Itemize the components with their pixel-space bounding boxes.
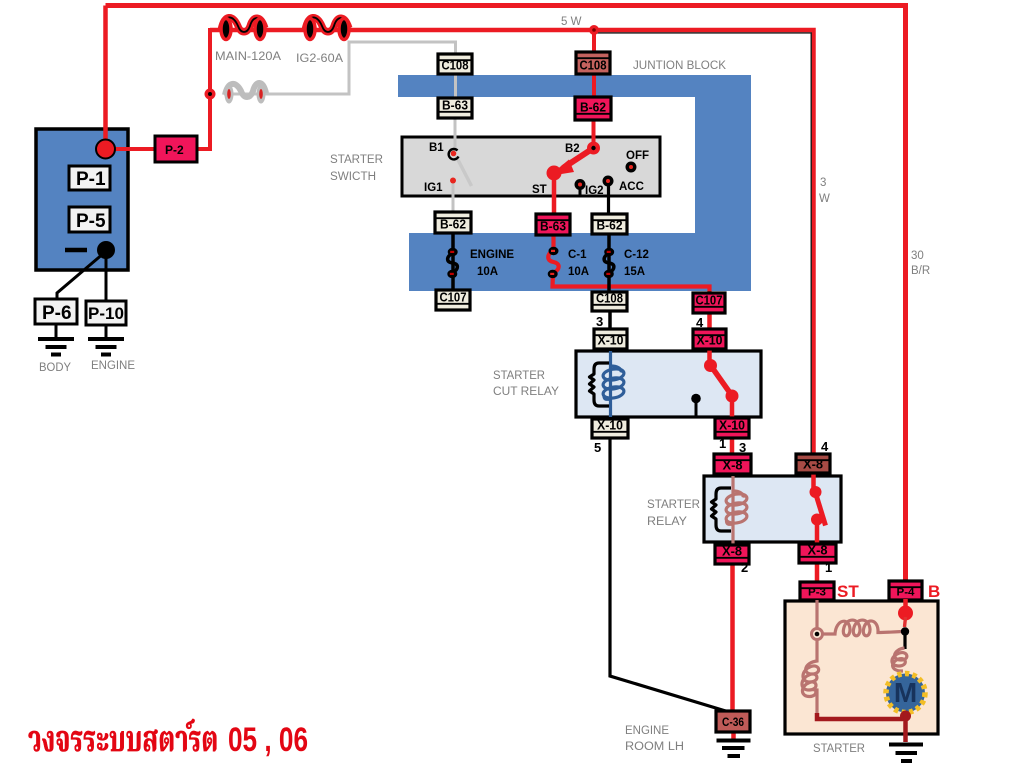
wire: battery positive riser x=105 <box>103 6 108 142</box>
svg-text:C108: C108 <box>596 292 623 306</box>
svg-text:ST: ST <box>532 184 547 196</box>
fuse C-1 end dots <box>549 247 559 255</box>
wire: red through C-36 to ground <box>731 730 736 741</box>
svg-text:IG1: IG1 <box>424 182 443 194</box>
svg-text:4: 4 <box>821 439 829 454</box>
connector P-6 <box>35 299 77 324</box>
wire: red P-4 into starter <box>903 599 908 612</box>
wire: gray IG1 down to B-62 <box>452 183 455 214</box>
svg-text:5 W: 5 W <box>561 16 582 28</box>
svg-text:X-10: X-10 <box>719 419 745 433</box>
terminal ST (big red dot) <box>547 166 562 181</box>
wire: red X-8 pin1 to P-3 <box>815 562 820 583</box>
svg-text:IG2: IG2 <box>585 185 604 197</box>
wire: black ACC down to B-62 <box>607 186 610 216</box>
wire: battery neg to P-10 <box>105 258 108 301</box>
wire: black X-10 pin5 down then diagonal to C-36 <box>610 437 729 712</box>
svg-text:X-8: X-8 <box>723 459 743 473</box>
svg-text:RELAY: RELAY <box>647 516 687 528</box>
svg-text:P-2: P-2 <box>165 143 184 157</box>
ground ENGINE ROOM LH (under C-36) <box>717 741 751 757</box>
svg-text:C-1: C-1 <box>568 249 587 261</box>
wire: red X-10 pin1 to X-8 pin3 <box>730 437 735 455</box>
svg-text:P-1: P-1 <box>76 169 106 190</box>
fusible link gray (to IG sub) <box>225 83 267 104</box>
fuse ENGINE 10A squiggle <box>448 253 458 273</box>
terminal B1 <box>449 149 459 159</box>
connector X-8 pin4 <box>796 454 830 473</box>
svg-text:P-4: P-4 <box>897 587 916 599</box>
connector B-63 mid <box>536 214 570 235</box>
svg-text:15A: 15A <box>624 266 645 278</box>
ground BODY <box>38 339 74 355</box>
wire: gray C108L to B-63 <box>454 73 457 100</box>
svg-text:CUT RELAY: CUT RELAY <box>493 386 559 398</box>
connector P-1 <box>69 166 110 190</box>
wire: drop x=210 from link line to P-2 level <box>208 28 212 149</box>
svg-text:05 , 06: 05 , 06 <box>228 721 308 759</box>
connector B-62 left <box>435 212 471 233</box>
svg-text:X-10: X-10 <box>597 419 623 433</box>
svg-text:C108: C108 <box>580 59 607 73</box>
switch blade B1 (gray, open) <box>456 156 472 186</box>
wire: red X-8 pin2 down to C-36 <box>730 563 735 712</box>
svg-text:M: M <box>894 677 917 708</box>
svg-text:X-10: X-10 <box>598 334 624 348</box>
svg-text:ST: ST <box>837 582 859 601</box>
starter relay box <box>704 476 841 542</box>
node: 5W junction dot <box>589 25 599 35</box>
cut relay switch: red wire in <box>707 349 712 364</box>
connector X-10 top-left <box>594 329 627 349</box>
connector C-36 <box>716 711 750 732</box>
starter relay blade <box>816 493 826 526</box>
terminal IG2 <box>575 179 586 190</box>
connector X-8 pin3 <box>714 454 751 474</box>
svg-text:B-63: B-63 <box>540 220 566 234</box>
connector P-4 <box>889 581 922 600</box>
svg-text:MAIN-120A: MAIN-120A <box>215 51 281 63</box>
starter contact node (black) <box>901 627 909 635</box>
svg-text:B/R: B/R <box>911 265 930 277</box>
starter switch box <box>402 137 660 196</box>
starter moving contact segment <box>905 617 906 627</box>
title Thai text (drawn as path) <box>28 719 216 751</box>
starter field coil (vertical rosy right) <box>892 648 907 671</box>
ground ENGINE <box>88 339 124 355</box>
svg-text:5: 5 <box>594 440 601 455</box>
connector B-62 pink <box>575 97 611 120</box>
cut relay coil wire (blue) <box>609 351 612 417</box>
terminal IG1 <box>450 178 456 184</box>
starter box <box>785 601 938 734</box>
starter relay switch red wire in <box>811 473 816 490</box>
junction block top band <box>398 75 751 97</box>
svg-text:ENGINE: ENGINE <box>470 249 514 261</box>
wire: main 30 B/R line from battery top across and down to P-4 <box>106 6 906 582</box>
svg-text:C-36: C-36 <box>722 717 744 729</box>
wire: red B2 drop from B-62 pink <box>592 118 596 148</box>
wire: P-6 to ground <box>55 324 58 338</box>
svg-text:B-62: B-62 <box>597 219 623 233</box>
wire: black C108B to X-10 pin3 <box>608 310 612 330</box>
connector P-5 <box>69 207 110 232</box>
wire: gray from link to C108 left <box>224 42 456 94</box>
cut relay coil (blue spring) <box>602 366 625 400</box>
svg-text:JUNTION BLOCK: JUNTION BLOCK <box>633 60 726 72</box>
cut relay fixed contact (black dot with stub) <box>691 394 701 404</box>
node: battery positive red circle <box>96 140 115 159</box>
connector C108 bottom <box>592 292 627 312</box>
svg-text:P-10: P-10 <box>88 304 124 323</box>
svg-text:STARTER: STARTER <box>813 743 865 755</box>
svg-text:SWICTH: SWICTH <box>330 171 376 183</box>
wire: gray B-63 to B1 <box>454 117 457 151</box>
battery block <box>36 129 128 270</box>
connector P-3 <box>800 582 834 600</box>
connector X-8 pin1 <box>799 544 836 564</box>
wire: blade to X-8 pin1 <box>815 521 820 545</box>
svg-text:STARTER: STARTER <box>330 154 383 166</box>
fuse C-12 squiggle <box>604 253 614 273</box>
starter relay coil wire (rosy) <box>731 476 734 545</box>
fusible link MAIN-120A <box>221 17 265 39</box>
svg-text:3: 3 <box>596 314 603 329</box>
svg-text:BODY: BODY <box>39 362 71 374</box>
starter hold-in coil (vertical rosy left) <box>802 639 819 714</box>
starter pull-in coil (horizontal rosy) <box>822 620 902 636</box>
svg-text:P-6: P-6 <box>42 303 72 324</box>
cut relay coil core bracket <box>590 363 610 406</box>
connector B-63 top <box>438 98 472 118</box>
connector P-2 <box>155 136 197 162</box>
connector P-10 <box>86 301 126 325</box>
connector X-8 pin2 <box>715 545 749 565</box>
fusible link IG2-60A <box>305 17 349 39</box>
wire: P-10 to ground <box>105 325 108 338</box>
starter solenoid wire from P-3 (rosy) <box>815 600 818 630</box>
connector C108 left <box>438 54 472 74</box>
motor M <box>886 674 925 713</box>
connector B-62 right <box>592 214 627 234</box>
svg-text:30: 30 <box>911 250 924 262</box>
wire: thin black inner edge of 5W/3W run <box>597 33 811 454</box>
starter relay coil core bracket <box>712 488 732 531</box>
wire: 5W drop x=594 to C108 <box>592 30 596 54</box>
terminal ACC <box>603 176 614 187</box>
wire: red C107R to X-10 pin4 <box>707 312 712 330</box>
svg-text:3: 3 <box>820 177 826 189</box>
svg-text:B-62: B-62 <box>440 218 466 232</box>
svg-text:C108: C108 <box>442 59 469 73</box>
battery minus bar <box>65 248 87 253</box>
svg-text:C107: C107 <box>440 291 467 305</box>
svg-text:X-8: X-8 <box>808 544 828 558</box>
svg-text:C107: C107 <box>696 294 723 308</box>
node: junction dot on x=210 at y=94 <box>205 89 216 100</box>
svg-text:B: B <box>928 582 940 601</box>
svg-text:ENGINE: ENGINE <box>91 360 135 372</box>
svg-text:IG2-60A: IG2-60A <box>296 53 343 65</box>
svg-text:B-63: B-63 <box>442 99 468 113</box>
svg-text:W: W <box>819 193 830 205</box>
connector X-10 bot-left <box>592 419 628 439</box>
svg-text:STARTER: STARTER <box>493 370 545 382</box>
wire: red blade to X-10 pin1 <box>730 398 735 419</box>
svg-text:P-5: P-5 <box>76 211 106 232</box>
connector X-10 top-right <box>693 329 726 349</box>
connector C108 top right <box>576 52 610 74</box>
wire: red B-63 through C-1 fuse down right to C107R <box>548 234 709 294</box>
svg-text:B1: B1 <box>429 142 444 154</box>
wire: motor to ground (dark red) <box>903 712 908 742</box>
svg-text:C-12: C-12 <box>624 249 649 261</box>
svg-text:ENGINE: ENGINE <box>625 725 669 737</box>
svg-text:P-3: P-3 <box>808 587 826 599</box>
battery negative dot <box>97 241 115 259</box>
svg-text:ACC: ACC <box>619 181 644 193</box>
starter relay coil (rosy spring) <box>725 491 748 525</box>
svg-text:STARTER: STARTER <box>647 499 700 511</box>
terminal B2 <box>587 142 600 155</box>
starter cut relay box <box>576 351 761 417</box>
junction block right column <box>695 75 751 233</box>
terminal OFF <box>626 162 637 173</box>
starter solenoid input node <box>812 629 823 640</box>
wire: black from contact down to motor coil <box>903 633 906 649</box>
wire: battery circle to P-2 to riser <box>112 147 212 151</box>
svg-text:10A: 10A <box>477 266 498 278</box>
wire: fusible-link line y=30 across and down as 3W to X-8 pin4 <box>210 30 814 455</box>
motor bottom node (dark red) <box>900 711 911 722</box>
svg-text:X-10: X-10 <box>697 334 723 348</box>
starter bottom bus (dark red) <box>817 713 903 719</box>
wire: black B-62R through C-12 fuse to C108B <box>607 232 611 293</box>
wire: battery neg to P-6 diagonal <box>57 253 104 299</box>
svg-text:X-8: X-8 <box>803 458 823 472</box>
ground starter <box>889 745 923 762</box>
switch blade B2->ST with arrow <box>563 149 592 168</box>
svg-text:OFF: OFF <box>626 150 649 162</box>
wire: IG2 stub <box>579 189 582 197</box>
svg-text:10A: 10A <box>568 266 589 278</box>
wire: red ST down to B-63 <box>552 178 557 216</box>
connector C107 red <box>693 293 725 313</box>
svg-text:ROOM LH: ROOM LH <box>625 741 684 753</box>
wire: black B-62L through ENGINE fuse to C107 <box>451 232 455 291</box>
svg-text:B-62: B-62 <box>580 101 606 115</box>
svg-text:X-8: X-8 <box>722 545 742 559</box>
svg-text:B2: B2 <box>565 143 580 155</box>
wire: red C108 to B-62 through band <box>592 72 596 99</box>
junction block bottom band <box>409 233 751 291</box>
connector C107 left <box>436 290 470 310</box>
cut relay switch blade <box>711 366 732 395</box>
starter B terminal big red dot <box>898 606 913 621</box>
connector X-10 bot-right <box>715 418 749 438</box>
